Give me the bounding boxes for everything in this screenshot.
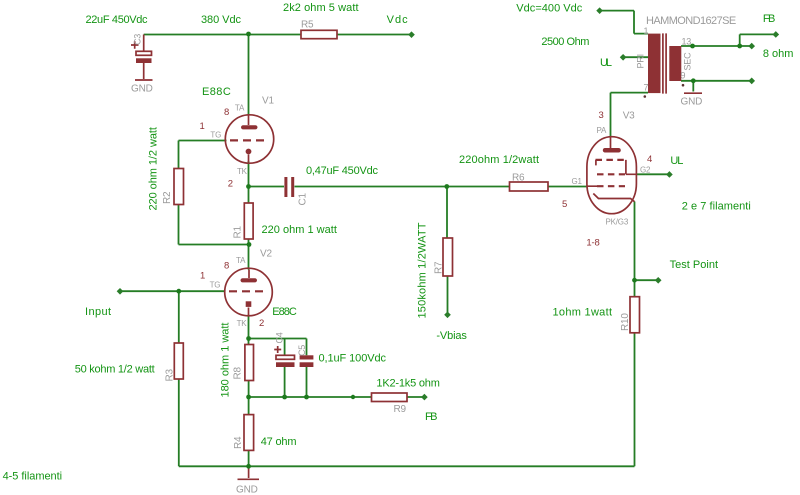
- svg-text:2500 Ohm: 2500 Ohm: [541, 36, 589, 48]
- svg-text:V2: V2: [260, 249, 272, 260]
- svg-text:220 ohm 1 watt: 220 ohm 1 watt: [262, 224, 337, 236]
- svg-text:FB: FB: [763, 13, 776, 25]
- svg-text:R4: R4: [233, 436, 244, 449]
- svg-text:TK: TK: [237, 167, 248, 176]
- svg-text:SEC: SEC: [683, 52, 693, 71]
- svg-text:1ohm 1watt: 1ohm 1watt: [553, 306, 613, 318]
- svg-text:1: 1: [200, 271, 205, 282]
- svg-text:PRI: PRI: [636, 54, 646, 68]
- svg-text:G1: G1: [572, 177, 583, 186]
- svg-text:8 ohm: 8 ohm: [763, 48, 794, 60]
- svg-text:-Vbias: -Vbias: [436, 330, 467, 342]
- svg-text:PK/G3: PK/G3: [606, 218, 629, 227]
- svg-text:50 kohm 1/2 watt: 50 kohm 1/2 watt: [75, 364, 155, 376]
- svg-text:1-8: 1-8: [586, 238, 599, 249]
- svg-text:220 ohm 1/2 watt: 220 ohm 1/2 watt: [148, 127, 160, 211]
- svg-text:4: 4: [647, 154, 652, 165]
- svg-text:R3: R3: [165, 368, 176, 381]
- svg-text:PA: PA: [597, 126, 608, 135]
- svg-text:8: 8: [224, 107, 229, 118]
- svg-text:380 Vdc: 380 Vdc: [201, 14, 242, 26]
- svg-text:0,47uF 450Vdc: 0,47uF 450Vdc: [306, 165, 379, 177]
- svg-text:2: 2: [259, 318, 264, 329]
- svg-text:UL: UL: [670, 155, 683, 167]
- svg-text:FB: FB: [425, 411, 438, 423]
- svg-text:7: 7: [644, 83, 649, 93]
- svg-text:C3: C3: [133, 34, 143, 45]
- svg-text:R9: R9: [394, 404, 407, 415]
- svg-text:150kohm 1/2WATT: 150kohm 1/2WATT: [417, 222, 429, 318]
- svg-text:GND: GND: [131, 84, 153, 95]
- svg-text:2: 2: [228, 179, 233, 190]
- svg-text:Vdc: Vdc: [387, 14, 409, 26]
- svg-text:TA: TA: [236, 256, 246, 265]
- svg-text:V3: V3: [623, 111, 635, 122]
- svg-text:0,1uF 100Vdc: 0,1uF 100Vdc: [319, 353, 387, 365]
- svg-text:R6: R6: [512, 173, 525, 184]
- svg-text:R1: R1: [233, 225, 244, 238]
- svg-text:C4: C4: [275, 332, 285, 343]
- svg-text:1: 1: [644, 26, 649, 36]
- svg-text:UL: UL: [600, 57, 612, 69]
- svg-text:22uF 450Vdc: 22uF 450Vdc: [86, 14, 149, 26]
- svg-text:Test Point: Test Point: [670, 259, 719, 271]
- svg-text:TK: TK: [237, 319, 248, 328]
- svg-text:C1: C1: [298, 192, 309, 205]
- svg-text:GND: GND: [681, 97, 703, 108]
- svg-text:2k2 ohm 5 watt: 2k2 ohm 5 watt: [283, 2, 359, 14]
- svg-text:13: 13: [682, 37, 692, 47]
- svg-text:R5: R5: [301, 20, 314, 31]
- svg-text:TG: TG: [210, 131, 221, 140]
- svg-text:4-5 filamenti: 4-5 filamenti: [3, 471, 63, 483]
- svg-text:1: 1: [200, 121, 205, 132]
- svg-text:TA: TA: [235, 104, 245, 113]
- svg-text:V1: V1: [262, 96, 274, 107]
- svg-text:8: 8: [224, 260, 229, 271]
- svg-text:E88C: E88C: [272, 306, 297, 318]
- svg-text:C5: C5: [297, 345, 307, 356]
- svg-text:3: 3: [599, 110, 604, 121]
- svg-text:5: 5: [562, 199, 567, 210]
- svg-text:Input: Input: [85, 306, 111, 318]
- svg-text:R2: R2: [162, 191, 173, 204]
- svg-text:R10: R10: [620, 313, 631, 331]
- svg-text:R8: R8: [233, 366, 244, 379]
- svg-text:R7: R7: [434, 261, 445, 274]
- svg-text:HAMMOND1627SE: HAMMOND1627SE: [646, 15, 736, 27]
- svg-text:1K2-1k5 ohm: 1K2-1k5 ohm: [376, 377, 440, 389]
- svg-text:G2: G2: [640, 166, 651, 175]
- svg-text:47 ohm: 47 ohm: [261, 436, 297, 448]
- svg-text:2 e 7 filamenti: 2 e 7 filamenti: [682, 201, 751, 213]
- svg-text:180 ohm 1 watt: 180 ohm 1 watt: [220, 323, 232, 398]
- svg-text:GND: GND: [236, 485, 258, 495]
- svg-text:TG: TG: [210, 281, 221, 290]
- svg-text:9: 9: [681, 71, 686, 81]
- svg-text:E88C: E88C: [202, 86, 231, 98]
- svg-text:220ohm 1/2watt: 220ohm 1/2watt: [459, 154, 539, 166]
- svg-text:Vdc=400 Vdc: Vdc=400 Vdc: [516, 2, 583, 14]
